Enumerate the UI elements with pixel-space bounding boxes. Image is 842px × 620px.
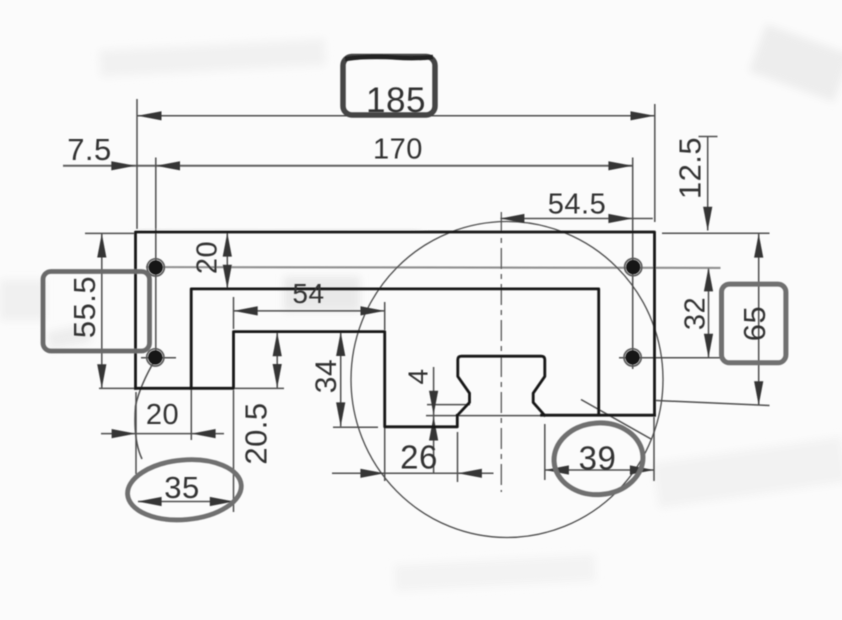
arrow 32 up: [704, 267, 713, 291]
centerline of tooth: [500, 212, 502, 492]
arrow 55.5 down: [97, 364, 106, 388]
hole top-left: [147, 259, 164, 276]
sketch ellipse around 35: [125, 455, 244, 524]
dim line 20 top vertical: [226, 233, 228, 289]
dim line 4 vertical: [433, 367, 435, 474]
ext 35 right long: [233, 390, 235, 512]
arrow 4 down: [429, 391, 438, 415]
tick top of 12.5: [699, 136, 718, 138]
arrow 32 down: [704, 334, 713, 358]
hole top-right: [625, 259, 642, 276]
sketch box around 65: [722, 284, 786, 363]
arrow 39 left: [545, 465, 569, 474]
thin line tooth base: [426, 415, 542, 417]
ext top edge right: [662, 232, 770, 234]
hole line left top (long, to right hole): [146, 266, 721, 269]
ext 55.5 top: [85, 232, 134, 234]
dim line 20 bottom: [101, 433, 224, 435]
arrow 26 left: [360, 469, 384, 478]
inner profile: [191, 289, 599, 415]
ext left edge bottom: [135, 392, 137, 474]
bottom stepped profile: [136, 332, 458, 427]
svg-text:20.5: 20.5: [239, 402, 274, 464]
svg-text:55.5: 55.5: [67, 276, 102, 338]
arrow 34 down: [336, 402, 345, 426]
ext 54 left: [233, 297, 235, 329]
svg-text:34: 34: [310, 359, 343, 393]
ext 54 right: [384, 302, 386, 330]
dim line 34 vertical: [340, 332, 342, 426]
arrow 54 left: [234, 306, 258, 315]
leader ellipse 39: [581, 400, 651, 440]
svg-text:12.5: 12.5: [673, 137, 708, 199]
svg-text:54.5: 54.5: [548, 189, 606, 221]
svg-text:20: 20: [192, 241, 224, 274]
dim line 32 vertical: [708, 267, 710, 358]
svg-text:26: 26: [400, 439, 438, 476]
arrow 7.5 left: [111, 161, 135, 170]
arrow 20 bottom right: [192, 429, 216, 438]
svg-text:35: 35: [164, 470, 199, 505]
sketch ellipse around 39: [552, 420, 646, 498]
dim line 20.5 vertical: [276, 332, 278, 388]
hole bottom-right: [624, 349, 641, 366]
dimension texts: [67, 81, 772, 505]
bottom edge right: [542, 414, 655, 417]
arrow 54.5 right: [608, 214, 632, 223]
svg-text:170: 170: [373, 134, 423, 166]
arrow 26 right: [458, 469, 482, 478]
arrow 39 right: [630, 465, 654, 474]
arrow 55.5 up: [97, 234, 106, 258]
ext 34 bottom left: [333, 426, 378, 428]
tooth (dovetail key): [457, 356, 545, 415]
ext 26 right: [457, 432, 459, 482]
ext right edge top: [654, 104, 656, 222]
arrow 54.5 left: [500, 214, 524, 223]
dim line 39: [545, 469, 654, 471]
ext 39 left: [544, 424, 546, 480]
arrow 35 left: [138, 497, 162, 506]
gray fuzz above top edge: [137, 228, 420, 231]
dim line 35: [138, 501, 234, 503]
leader hole to ellipse 35: [135, 359, 156, 459]
bold part profile: [136, 232, 655, 427]
svg-text:4: 4: [403, 368, 434, 384]
arrow 65 up: [754, 234, 763, 258]
arrow 185 right: [631, 111, 655, 120]
dim line 26: [332, 472, 494, 474]
sketch box around 185: [343, 57, 435, 116]
ext bottom right sloped: [656, 401, 770, 406]
arrow 170 right: [608, 161, 632, 170]
arrow 34 up: [336, 332, 345, 356]
arrow 54 right: [361, 306, 385, 315]
arrow 20.5 down: [273, 364, 282, 388]
hole bottom-left: [147, 349, 164, 366]
arrow 20.5 up: [273, 332, 282, 356]
arrow 12.5 down: [703, 207, 712, 231]
ext tooth waist: [427, 404, 470, 406]
arrow 7.5/170 shared: [156, 161, 180, 170]
svg-text:7.5: 7.5: [67, 132, 112, 167]
arrow 20 bottom left: [112, 429, 136, 438]
svg-text:39: 39: [579, 440, 617, 477]
dim line 54: [234, 310, 385, 312]
ext 39 right: [653, 417, 655, 481]
arrow 20top down: [223, 265, 232, 289]
ext 55.5 bottom: [99, 387, 134, 389]
ext left edge top: [136, 99, 138, 229]
hole tick left bottom: [141, 357, 176, 359]
ext inner left bottom: [190, 390, 192, 440]
dim line 54.5: [500, 218, 652, 220]
ext 20.5 bottom: [235, 387, 284, 389]
hole line right bottom: [619, 357, 721, 359]
outer outline: [136, 232, 655, 415]
arrow 65 down: [754, 381, 763, 405]
ext hole centerline left vertical: [155, 158, 157, 363]
svg-text:65: 65: [737, 306, 772, 341]
svg-text:32: 32: [680, 297, 712, 330]
dimension arrowheads: [97, 111, 763, 506]
dim line 170 / 7.5 shared: [63, 165, 633, 167]
thin dimension/extension lines: [63, 99, 770, 512]
arrow 185 left: [138, 111, 162, 120]
dim line 65 vertical: [758, 234, 760, 405]
dim line 55.5 vertical: [101, 234, 103, 389]
svg-text:185: 185: [366, 81, 426, 120]
ext hole centerline right vertical: [632, 158, 634, 370]
svg-text:54: 54: [292, 278, 324, 309]
svg-text:20: 20: [146, 399, 179, 431]
sketch box around 55.5: [43, 272, 150, 352]
dim line 12.5 vertical: [707, 137, 709, 231]
arrow 20top up: [223, 233, 232, 257]
arrow 35 right: [210, 497, 234, 506]
dim line 185: [138, 115, 655, 117]
arrow 4 up: [429, 417, 438, 441]
big circle: [351, 222, 663, 538]
ext 26 left: [384, 428, 386, 481]
